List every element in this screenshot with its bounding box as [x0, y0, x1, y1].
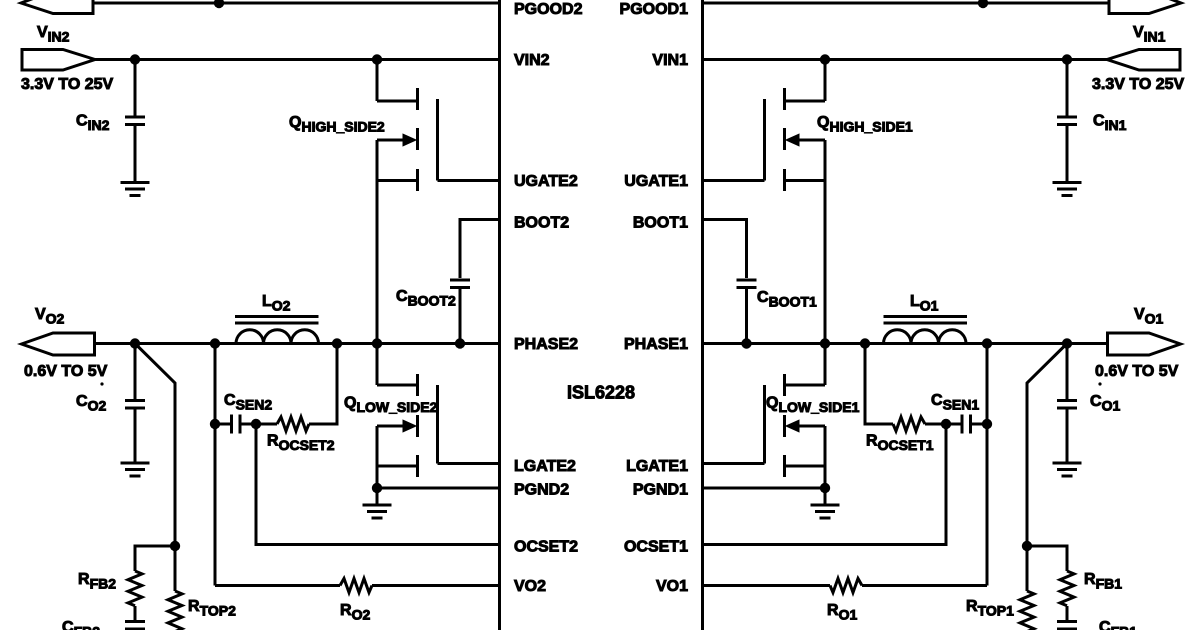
ground at C_O1	[1053, 463, 1082, 476]
wire CO2	[134, 344, 137, 401]
wire R_OCSET2 to PHASE2	[309, 344, 337, 425]
wire Q_HIGH_SIDE2 source to PHASE2	[376, 181, 379, 344]
wire CIN1 bottom	[1066, 125, 1069, 183]
wire PHASE2	[95, 342, 499, 345]
junction PHASE2 at L_O2 left	[210, 338, 220, 348]
junction divider 1	[1022, 541, 1032, 551]
wire CIN2 bottom	[134, 125, 137, 183]
capacitor C_O1	[1057, 401, 1077, 409]
resistor R_OCSET1	[893, 417, 925, 431]
wire VO1 sense diagonal	[1027, 344, 1067, 547]
wire CO1 bottom	[1066, 408, 1069, 463]
resistor R_OCSET2	[277, 417, 309, 431]
wire R_FB1 to C_FB1	[1066, 606, 1069, 622]
wire R_TOP2 top	[174, 546, 177, 591]
wire UGATE1	[704, 179, 765, 182]
junction PHASE1 at L_O1 right	[860, 338, 870, 348]
capacitor C_IN2	[125, 117, 145, 125]
transistor Q_HIGH_SIDE2	[377, 60, 438, 192]
wire VIN2	[95, 58, 498, 61]
wire LGATE2	[438, 462, 499, 465]
wire VIN1	[704, 58, 1107, 61]
wire VO1 feedback vertical	[986, 424, 989, 586]
wire to C_SEN1	[972, 423, 987, 426]
transistor Q_HIGH_SIDE1	[765, 60, 826, 192]
power ground 1	[811, 505, 840, 518]
wire OCSET2	[256, 424, 498, 545]
capacitor C_BOOT2	[450, 280, 470, 288]
op-amp U1 ISL6228 controller box left edge	[498, 0, 501, 630]
capacitor C_FB2	[125, 622, 145, 630]
svg-text:ISL6228: ISL6228	[567, 383, 635, 403]
junction VIN1 at Q_HIGH_SIDE1	[820, 54, 830, 64]
ground at C_IN2	[121, 183, 150, 196]
wire VO2 sense diagonal	[135, 344, 175, 547]
wire to C_SEN2	[215, 423, 230, 426]
capacitor C_O2	[125, 401, 145, 409]
wire PGOOD2	[93, 2, 498, 5]
speck near C_O1	[1098, 382, 1101, 385]
junction VIN1 at CIN1	[1062, 54, 1072, 64]
svg-text:BOOT2: BOOT2	[514, 215, 569, 232]
wire R_FB1 top	[1027, 546, 1067, 571]
svg-text:VO2: VO2	[514, 578, 546, 595]
wire VO1 left	[862, 584, 987, 587]
resistor R_FB2	[128, 571, 142, 606]
wire PHASE1	[704, 342, 1108, 345]
wire BOOT2	[460, 220, 498, 279]
svg-text:PGND2: PGND2	[514, 482, 569, 499]
junction divider 2	[170, 541, 180, 551]
capacitor C_BOOT1	[737, 280, 757, 288]
wire CO2 bottom	[134, 408, 137, 463]
svg-text:UGATE2: UGATE2	[514, 173, 578, 190]
wire OCSET1	[704, 424, 946, 545]
junction PGND2	[372, 483, 382, 493]
wire C_SEN1 to R_OCSET1	[925, 423, 961, 426]
svg-text:BOOT1: BOOT1	[633, 215, 688, 232]
connector PGOOD1 arrow	[1109, 0, 1181, 14]
svg-text:0.6V TO 5V: 0.6V TO 5V	[24, 363, 108, 380]
junction OCSET1 tap	[941, 419, 951, 429]
wire C_SEN2 to R_OCSET2	[242, 423, 278, 426]
wire to power ground 2	[376, 488, 379, 505]
svg-text:PGOOD2: PGOOD2	[514, 1, 583, 18]
svg-text:OCSET2: OCSET2	[514, 539, 578, 556]
wire R_FB2 to C_FB2	[134, 606, 137, 622]
junction PHASE2 at L_O2 right	[332, 338, 342, 348]
wire VO2 feedback vertical	[214, 424, 217, 586]
svg-text:PHASE1: PHASE1	[624, 336, 688, 353]
connector PGOOD2 arrow	[21, 0, 93, 14]
wire CIN2 top	[134, 60, 137, 118]
capacitor C_IN1	[1057, 117, 1077, 125]
ISL6228 controller box right edge	[701, 0, 704, 630]
svg-text:VO1: VO1	[656, 578, 688, 595]
junction PHASE1 at CO1	[1062, 338, 1072, 348]
svg-text:PHASE2: PHASE2	[514, 336, 578, 353]
wire R_TOP1 top	[1026, 546, 1029, 591]
wire R_OCSET1 to PHASE1	[865, 344, 893, 425]
svg-text:3.3V TO 25V: 3.3V TO 25V	[21, 76, 114, 93]
svg-text:3.3V TO 25V: 3.3V TO 25V	[1092, 76, 1185, 93]
capacitor C_FB1	[1057, 622, 1077, 630]
junction PHASE1 at Q1	[820, 338, 830, 348]
junction on PGOOD1	[978, 0, 988, 8]
wire Q_LOW_SIDE2 source down	[376, 466, 379, 488]
connector VO2 arrow	[22, 333, 95, 355]
junction PHASE2 at CO2	[130, 338, 140, 348]
wire C_SEN1 branch	[986, 344, 989, 425]
resistor R_FB1	[1060, 571, 1074, 606]
svg-text:LGATE1: LGATE1	[626, 458, 688, 475]
junction C_SEN1 left	[982, 419, 992, 429]
svg-text:VIN2: VIN2	[514, 52, 550, 69]
junction C_SEN2 left	[210, 419, 220, 429]
connector VIN2 arrow	[22, 50, 95, 71]
wire to power ground 1	[824, 488, 827, 505]
svg-text:PGND1: PGND1	[633, 482, 688, 499]
junction PHASE2 at C_BOOT2	[455, 338, 465, 348]
speck near C_O2	[100, 382, 103, 385]
inductor L_O2	[235, 317, 319, 344]
wire Q_LOW_SIDE1 source down	[824, 466, 827, 488]
wire CO1	[1066, 344, 1069, 401]
svg-text:VIN1: VIN1	[652, 52, 688, 69]
ground at C_O2	[121, 463, 150, 476]
wire CIN1 top	[1066, 60, 1069, 118]
resistor R_TOP1	[1020, 591, 1034, 630]
junction PGND1	[820, 483, 830, 493]
capacitor C_SEN2	[232, 415, 241, 434]
inductor L_O1	[884, 317, 968, 344]
power ground 2	[363, 505, 392, 518]
svg-text:UGATE1: UGATE1	[624, 173, 688, 190]
transistor Q_LOW_SIDE1	[765, 344, 826, 478]
wire PGND2	[377, 487, 498, 490]
wire VO2 right	[372, 584, 498, 587]
connector VIN1 arrow	[1107, 50, 1180, 71]
wire C_BOOT2 to PHASE2	[459, 288, 462, 344]
wire C_SEN2 branch	[214, 344, 217, 425]
svg-text:OCSET1: OCSET1	[624, 539, 688, 556]
junction PHASE1 at C_BOOT1	[741, 338, 751, 348]
connector VO1 arrow	[1108, 333, 1181, 355]
ground at C_IN1	[1053, 183, 1082, 196]
junction on PGOOD2	[214, 0, 224, 8]
wire R_FB2 top	[135, 546, 175, 571]
junction PHASE1 at L_O1 left	[982, 338, 992, 348]
wire PGOOD1	[704, 2, 1109, 5]
wire Q_HIGH_SIDE1 source to PHASE1	[824, 181, 827, 344]
wire VO2 left	[215, 584, 340, 587]
svg-text:0.6V TO 5V: 0.6V TO 5V	[1095, 363, 1179, 380]
wire LGATE1	[704, 462, 765, 465]
junction VIN2 at Q_HIGH_SIDE2	[372, 54, 382, 64]
resistor R_TOP2	[168, 591, 182, 630]
junction PHASE2 at Q2	[372, 338, 382, 348]
junction VIN2 at CIN2	[130, 54, 140, 64]
wire UGATE2	[438, 179, 499, 182]
resistor R_O2	[340, 579, 372, 593]
wire PGND1	[704, 487, 825, 490]
capacitor C_SEN1	[962, 415, 971, 434]
svg-text:PGOOD1: PGOOD1	[620, 1, 689, 18]
transistor Q_LOW_SIDE2	[377, 344, 438, 478]
resistor R_O1	[830, 579, 862, 593]
svg-text:LGATE2: LGATE2	[514, 458, 576, 475]
junction OCSET2 tap	[251, 419, 261, 429]
wire VO1 right	[704, 584, 830, 587]
wire C_BOOT1 to PHASE1	[745, 288, 748, 344]
wire BOOT1	[704, 220, 747, 279]
